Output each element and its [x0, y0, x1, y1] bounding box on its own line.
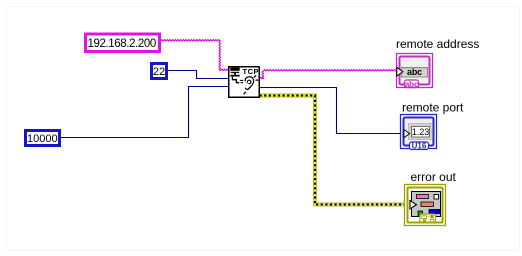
computer glyph in icon: [230, 68, 239, 71]
indicator error out: [405, 185, 446, 226]
svg-text:10000: 10000: [27, 133, 58, 145]
wire: numeric constant 10000 to TCP timeout input: [61, 87, 229, 138]
svg-text:abc: abc: [407, 67, 422, 77]
numeric constant 22: [152, 64, 167, 79]
wire: TCP remote port output to remote port indicator: [260, 88, 401, 134]
svg-text:1.23: 1.23: [412, 127, 430, 137]
error out cluster tab: [420, 214, 436, 222]
svg-text:remote address: remote address: [396, 37, 479, 51]
svg-text:error out: error out: [411, 170, 457, 184]
svg-text:abc: abc: [405, 79, 419, 89]
wire: numeric constant 22 to TCP port input: [168, 71, 229, 79]
zigzag link in icon: [232, 77, 239, 83]
string constant 192.168.2.200: [86, 34, 160, 52]
wire: TCP error out to error out indicator: [260, 96, 405, 205]
TCP Listen VI icon U1: [229, 67, 260, 98]
ear glyph in icon: [245, 77, 253, 90]
svg-text:TCP: TCP: [243, 67, 260, 76]
svg-text:remote port: remote port: [402, 101, 464, 115]
wire: string constant to TCP net address input: [161, 40, 229, 71]
indicator remote port: [401, 115, 437, 151]
ear dashes in icon: [254, 75, 256, 77]
indicator remote address: [397, 54, 433, 89]
wire: TCP remote address output to remote address indicator: [259, 70, 397, 79]
svg-text:U16: U16: [412, 142, 427, 151]
numeric constant 10000: [26, 131, 60, 146]
svg-text:192.168.2.200: 192.168.2.200: [88, 38, 156, 50]
svg-text:22: 22: [153, 66, 165, 78]
